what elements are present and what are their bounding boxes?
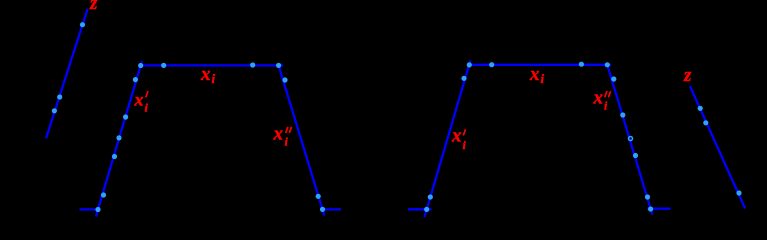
svg-text:z: z (89, 0, 98, 14)
svg-text:i: i (541, 71, 545, 86)
svg-text:x: x (273, 124, 284, 145)
svg-text:x: x (200, 64, 211, 85)
svg-text:x: x (529, 64, 540, 85)
svg-text:x: x (134, 90, 144, 110)
svg-text:x: x (451, 126, 462, 147)
svg-text:i: i (212, 71, 216, 86)
svg-text:z: z (683, 65, 692, 86)
svg-text:x: x (593, 88, 604, 109)
